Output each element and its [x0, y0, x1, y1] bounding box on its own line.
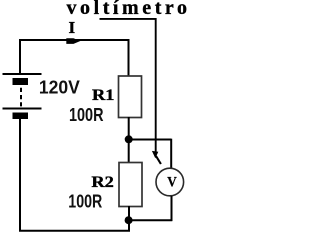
svg-text:voltímetro: voltímetro: [67, 0, 188, 19]
wire: top horizontal: [19, 39, 130, 41]
wire: R1 to node A: [128, 117, 130, 140]
svg-text:100R: 100R: [68, 192, 102, 212]
battery B1: bottom long plate: [3, 108, 42, 110]
wire: drop from top wire to R1: [128, 39, 130, 77]
leader diagonal tail: [156, 156, 161, 164]
wire: node B down to bottom wire: [128, 220, 130, 232]
node A junction dot: [125, 135, 133, 143]
resistor R2 box: [119, 163, 142, 207]
wire: voltmeter branch down to circle top: [170, 139, 172, 168]
svg-text:R2: R2: [91, 174, 114, 191]
voltmeter M1 circle: [156, 168, 184, 196]
current arrow: [66, 38, 80, 44]
leader line from label to voltmeter: [100, 19, 156, 152]
wire: node B horizontal to voltmeter bottom: [129, 219, 173, 221]
wire: left vertical top (corner to battery +): [19, 39, 21, 74]
resistor R1 box: [119, 76, 142, 118]
wire: node A down to R2: [128, 139, 130, 163]
svg-text:V: V: [167, 174, 177, 190]
battery B1: dashed middle link: [20, 88, 22, 107]
node B junction dot: [125, 216, 133, 224]
svg-text:I: I: [69, 18, 76, 37]
battery B1: bottom thick plate: [13, 113, 29, 120]
battery B1: top long plate: [3, 73, 42, 75]
wire: voltmeter bottom down: [171, 196, 173, 221]
battery B1: top thick plate: [13, 78, 29, 85]
wire: left vertical bottom (battery - to bottom corner): [19, 119, 21, 232]
wire: R2 to node B: [128, 206, 130, 221]
wire: bottom horizontal: [19, 230, 130, 232]
svg-text:R1: R1: [92, 87, 115, 104]
wire: node A horizontal to voltmeter branch: [129, 139, 172, 141]
svg-text:120V: 120V: [39, 77, 80, 97]
leader arrowhead: [152, 151, 158, 158]
svg-text:100R: 100R: [69, 105, 104, 125]
